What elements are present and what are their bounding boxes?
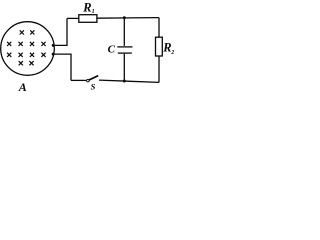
bottom wire right of switch to bottom-right corner — [99, 80, 159, 82]
switch S pivot circle — [87, 79, 90, 82]
switch S blade — [89, 76, 99, 81]
top wire left of R1 — [67, 17, 79, 19]
capacitor branch lower wire — [123, 54, 125, 81]
svg-text:R: R — [82, 0, 91, 14]
right branch below R2 to bottom corner — [158, 56, 160, 82]
right branch down to R2 — [158, 18, 160, 38]
svg-text:1: 1 — [92, 9, 95, 15]
top wire right of R1 to top-right corner — [97, 17, 159, 20]
lower terminal lead wire — [53, 54, 71, 80]
bottom wire left of switch — [71, 79, 86, 81]
capacitor branch upper wire — [123, 18, 125, 46]
node dot: coil lower terminal — [52, 53, 55, 56]
resistor R2 box — [156, 37, 163, 56]
svg-text:C: C — [108, 43, 116, 55]
svg-text:S: S — [91, 81, 96, 91]
capacitor C bottom plate — [118, 52, 132, 54]
coil field region circle — [1, 22, 55, 76]
x field marks — [7, 30, 46, 65]
capacitor C top plate — [117, 46, 132, 48]
svg-text:A: A — [18, 80, 27, 94]
node dot: coil upper terminal — [52, 44, 55, 47]
svg-text:2: 2 — [170, 50, 174, 56]
upper terminal lead wire — [53, 18, 67, 45]
node dot: bottom junction of capacitor branch — [123, 80, 126, 83]
resistor R1 box — [79, 15, 97, 23]
node dot: top junction of capacitor branch — [123, 16, 126, 19]
